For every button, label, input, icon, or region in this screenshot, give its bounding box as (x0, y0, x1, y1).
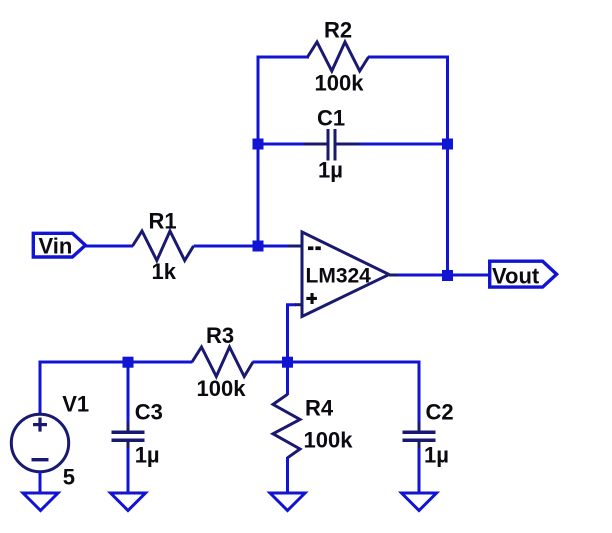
junction at inverting input node (253, 241, 264, 252)
wire: C1 row left segment (258, 143, 305, 146)
wire: V1 riser and bottom rail to R3 (40, 362, 193, 415)
wire: C3 branch from bottom rail (127, 362, 130, 424)
ground below C2 (402, 493, 437, 511)
resistor R4 (273, 394, 300, 458)
junction at C1 left / feedback node (253, 139, 264, 150)
resistor R2 (308, 42, 369, 71)
wire: R1 to inverting input node (194, 245, 291, 248)
svg-text:5: 5 (63, 465, 75, 490)
svg-text:V1: V1 (62, 392, 89, 417)
voltage source V1 (11, 414, 68, 471)
wire: R3 to center node (253, 361, 288, 364)
resistor R1 (133, 231, 194, 261)
wire: op-amp output lead (389, 274, 403, 277)
svg-text:Vin: Vin (39, 234, 73, 259)
wire: inverting input lead (288, 245, 302, 248)
svg-text:Vout: Vout (492, 264, 540, 289)
svg-text:100k: 100k (304, 428, 354, 453)
wire: non-inverting input jog (288, 305, 297, 362)
capacitor C1 (304, 129, 360, 161)
svg-text:R2: R2 (324, 18, 352, 43)
ground below R4 (270, 493, 305, 511)
wire: V1 to ground (39, 472, 42, 494)
junction at C3 node (123, 357, 134, 368)
wire: non-inverting input lead (295, 303, 302, 306)
svg-text:C1: C1 (317, 106, 345, 131)
junction at C1 right (442, 139, 453, 150)
svg-text:LM324: LM324 (306, 265, 372, 288)
wire: C2 to ground (418, 448, 421, 493)
svg-text:R4: R4 (305, 396, 334, 421)
wire: left vertical rail and top-left segment (258, 57, 309, 246)
svg-text:C3: C3 (135, 400, 163, 425)
junction at R3/R4 node (282, 357, 293, 368)
svg-text:100k: 100k (315, 71, 365, 96)
wire: Vin flag to R1 (85, 245, 133, 248)
capacitor C3 (112, 422, 145, 450)
capacitor C2 (403, 422, 436, 450)
svg-text:1µ: 1µ (424, 443, 449, 468)
svg-text:100k: 100k (197, 376, 247, 401)
svg-text:R3: R3 (206, 323, 234, 348)
node Vout (output flag) (490, 261, 557, 288)
svg-text:1µ: 1µ (135, 443, 160, 468)
wire: top-right segment and right vertical rail (368, 57, 448, 276)
wire: C1 row right segment (359, 143, 448, 146)
wire: center node to C2 branch (288, 362, 420, 424)
junction at output node (442, 270, 453, 281)
wire: C3 to ground (127, 448, 130, 493)
wire: R4 to ground (286, 457, 289, 493)
svg-text:C2: C2 (426, 400, 454, 425)
node Vin (input flag) (33, 233, 85, 258)
svg-text:1k: 1k (152, 259, 177, 284)
ground below V1 (23, 493, 58, 511)
svg-text:1µ: 1µ (318, 158, 343, 183)
ground below C3 (111, 493, 146, 511)
wire: output to Vout flag (398, 274, 490, 277)
op-amp U1 (LM324) (302, 232, 389, 317)
wire: R4 top lead (286, 362, 289, 395)
svg-text:R1: R1 (149, 209, 177, 234)
resistor R3 (192, 347, 253, 377)
